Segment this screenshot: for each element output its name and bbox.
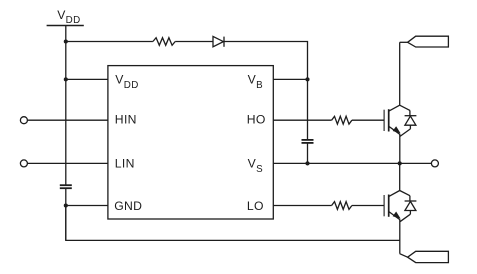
transistor Q2 (low-side IGBT with diode) xyxy=(384,191,416,222)
wire VB branch below cap to VS xyxy=(307,143,309,164)
svg-text:VB: VB xyxy=(248,73,263,91)
wire gate resistor to Q1 gate xyxy=(352,119,384,121)
wire HO pin to gate resistor xyxy=(273,119,331,121)
wire Q2 emitter vertical xyxy=(399,219,401,253)
wire VS pin to output xyxy=(273,162,431,164)
resistor R1 (bootstrap) xyxy=(153,38,175,46)
svg-text:LIN: LIN xyxy=(115,157,135,171)
pin label HO xyxy=(247,113,266,127)
pin label LO xyxy=(247,199,264,213)
svg-text:HIN: HIN xyxy=(115,113,137,127)
wire VDD rail vertical (top to decoupling cap) xyxy=(65,26,67,186)
tag bottom rail connector xyxy=(408,251,449,262)
emitter diagonal xyxy=(389,127,400,135)
wire Q1 collector vertical xyxy=(399,42,401,105)
wire decoupling cap to GND junction and bottom xyxy=(65,188,67,240)
svg-text:GND: GND xyxy=(114,199,142,213)
wire HIN pin xyxy=(27,119,108,121)
gate bar xyxy=(383,110,385,131)
emitter arrow xyxy=(393,127,399,133)
wire LO pin to gate resistor xyxy=(273,205,331,207)
wire Q2 collector vertical xyxy=(399,163,401,190)
collector diagonal xyxy=(389,191,400,197)
terminal LIN input xyxy=(20,160,27,167)
pin label VS xyxy=(248,157,263,175)
wire VDD pin xyxy=(66,78,108,80)
wire VB pin xyxy=(273,78,307,80)
wire Q2 emitter to bottom tag xyxy=(400,254,408,258)
capacitor C2 (bootstrap) xyxy=(302,140,314,143)
pin label VDD xyxy=(115,73,138,91)
transistor Q1 (high-side IGBT with diode) xyxy=(384,105,416,136)
supply VDD label xyxy=(57,8,80,26)
node GND junction xyxy=(64,203,68,207)
pin label LIN xyxy=(115,157,135,171)
terminal VS output xyxy=(431,160,438,167)
wire bootstrap top: rail to resistor xyxy=(66,41,153,43)
channel bar xyxy=(388,195,390,217)
node VDD rail / bootstrap junction xyxy=(64,39,68,43)
wire GND return bottom xyxy=(66,206,400,241)
pin label GND xyxy=(114,199,142,213)
wire GND pin xyxy=(66,205,108,207)
node VS / half-bridge junction xyxy=(398,161,402,165)
body diode D3 xyxy=(400,191,410,196)
wire Q1 emitter vertical xyxy=(399,134,401,163)
supply VDD bar xyxy=(47,25,84,27)
svg-text:VDD: VDD xyxy=(115,73,138,91)
svg-text:VS: VS xyxy=(248,157,263,175)
emitter arrow xyxy=(393,212,399,218)
IC U1 box xyxy=(108,66,273,219)
tag top rail connector xyxy=(408,36,449,47)
diode D1 (bootstrap) xyxy=(213,36,223,46)
channel bar xyxy=(388,109,390,131)
resistor R2 (HO gate) xyxy=(332,116,352,124)
body diode D2 xyxy=(400,105,410,110)
wire diode to corner to VB branch xyxy=(224,42,308,140)
svg-text:VDD: VDD xyxy=(57,8,80,26)
pin label VB xyxy=(248,73,263,91)
gate bar xyxy=(383,195,385,216)
collector diagonal xyxy=(389,105,400,111)
wire LIN pin xyxy=(27,162,108,164)
node VB junction xyxy=(305,77,309,81)
resistor R3 (LO gate) xyxy=(332,202,352,210)
node VDD rail / VDD pin junction xyxy=(64,77,68,81)
node bootstrap cap / VS junction xyxy=(305,161,309,165)
wire resistor to diode xyxy=(175,41,213,43)
svg-text:HO: HO xyxy=(247,113,266,127)
pin label HIN xyxy=(115,113,137,127)
wire top tag to collector xyxy=(400,41,408,43)
terminal HIN input xyxy=(20,117,27,124)
svg-text:LO: LO xyxy=(247,199,264,213)
capacitor C1 (VDD decoupling) xyxy=(60,185,72,188)
wire gate resistor to Q2 gate xyxy=(352,205,384,207)
emitter diagonal xyxy=(389,212,400,220)
